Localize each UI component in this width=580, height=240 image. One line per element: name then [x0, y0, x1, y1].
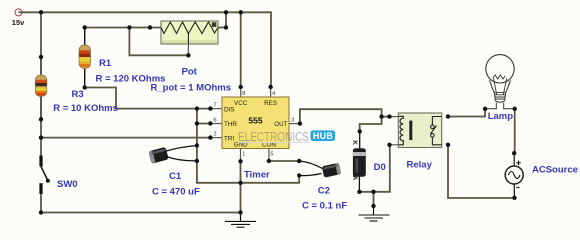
svg-text:C2: C2: [318, 186, 330, 197]
svg-text:15v: 15v: [12, 18, 25, 27]
svg-text:VCC: VCC: [234, 100, 248, 107]
svg-text:C1: C1: [169, 171, 182, 182]
svg-text:Timer: Timer: [244, 169, 270, 180]
svg-text:Pot: Pot: [182, 66, 198, 77]
svg-text:Lamp: Lamp: [488, 111, 514, 122]
svg-text:C = 470 uF: C = 470 uF: [152, 187, 200, 198]
svg-text:A: A: [351, 176, 358, 181]
svg-text:K: K: [351, 140, 358, 145]
svg-text:ACSource: ACSource: [532, 164, 578, 175]
svg-text:7: 7: [214, 103, 217, 109]
svg-text:THR: THR: [224, 121, 237, 128]
svg-text:555: 555: [248, 115, 262, 125]
svg-text:4: 4: [272, 91, 275, 97]
svg-text:Relay: Relay: [407, 160, 433, 171]
svg-text:5: 5: [270, 151, 273, 157]
svg-text:HUB: HUB: [313, 131, 333, 141]
svg-text:D0: D0: [374, 162, 386, 173]
svg-text:R_pot = 1 MOhms: R_pot = 1 MOhms: [151, 83, 232, 94]
svg-text:R = 10 KOhms: R = 10 KOhms: [53, 103, 118, 114]
svg-text:RES: RES: [264, 100, 277, 107]
svg-text:6: 6: [214, 118, 217, 124]
svg-text:OUT: OUT: [274, 121, 287, 128]
svg-text:8: 8: [242, 91, 245, 97]
svg-text:ELECTRONICS: ELECTRONICS: [238, 130, 309, 144]
svg-text:3: 3: [291, 117, 294, 123]
svg-text:R1: R1: [99, 58, 112, 69]
svg-text:C = 0.1 nF: C = 0.1 nF: [302, 201, 347, 212]
svg-text:SW0: SW0: [57, 179, 78, 190]
svg-text:R3: R3: [72, 89, 84, 100]
svg-text:DIS: DIS: [224, 106, 235, 113]
svg-text:1: 1: [242, 151, 245, 157]
svg-text:2: 2: [214, 132, 217, 138]
